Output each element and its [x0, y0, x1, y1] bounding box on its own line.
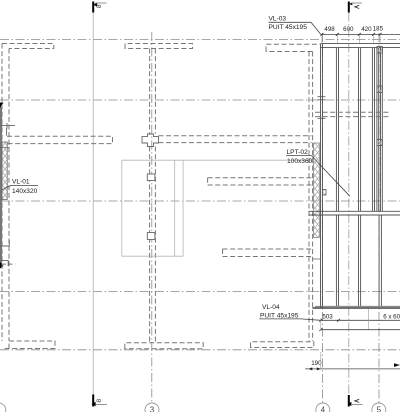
interior wall vertical lower pair [150, 147, 156, 343]
joist area footer band [313, 306, 400, 308]
joist J1 lower [336, 215, 338, 306]
post hatch square S3 [377, 140, 382, 146]
grid bubble 3 [145, 403, 159, 412]
wall stub upper right [208, 178, 312, 185]
wall top-left outer [2, 44, 54, 49]
joist J2 upper [359, 48, 361, 211]
wall right inner dashed 2 [308, 52, 310, 342]
grid bubble 5 [372, 403, 386, 412]
svg-text:VL-03: VL-03 [269, 16, 287, 23]
svg-text:503: 503 [322, 314, 333, 321]
wall left outer [1, 44, 3, 342]
right wall corner line [313, 258, 321, 260]
dashed wall across joists [315, 112, 391, 116]
grid line G-D horizontal y=291.5 [0, 291, 400, 293]
svg-text:4: 4 [321, 405, 326, 412]
interior wall horizontal left segment [7, 136, 113, 143]
svg-text:PUIT 45x195: PUIT 45x195 [269, 24, 308, 31]
joist J2 lower [359, 215, 361, 306]
grid line G-E horizontal y=349.8 [0, 349, 400, 351]
svg-text:8: 8 [96, 399, 103, 403]
post hatch square S1 [377, 47, 382, 54]
label VL-01 [2, 179, 38, 195]
label LPT-02 [286, 149, 350, 196]
bottom tab b [125, 343, 203, 349]
svg-text:185: 185 [373, 26, 384, 33]
svg-text:420: 420 [361, 26, 372, 33]
dimension 190 [305, 352, 400, 370]
grid line G-A horizontal y=39.5 [0, 39, 400, 41]
pilaster bar2 top edge [266, 44, 320, 51]
post strip right upper [377, 48, 382, 211]
post hatch square S4 [322, 190, 326, 196]
opening outline light [122, 160, 313, 256]
interior wall horizontal right segment [159, 136, 312, 143]
post hatch square S2 [377, 86, 382, 93]
interior wall vertical upper pair [150, 49, 156, 134]
joist J1 upper [336, 48, 338, 211]
grid line 3 vertical [151, 32, 153, 403]
svg-text:VL-01: VL-01 [12, 179, 30, 186]
pilaster bar1 top edge [125, 44, 193, 49]
svg-text:8: 8 [96, 4, 103, 8]
joist middle band [309, 211, 400, 215]
label VL-04 [259, 304, 321, 320]
svg-text:6 x 600: 6 x 600 [383, 314, 400, 321]
joist boundary junction ticks [318, 97, 326, 119]
beam right-wall hatched [314, 143, 320, 238]
section line 4 (right) [348, 2, 363, 407]
wall post cap P1 [147, 174, 155, 181]
svg-text:498: 498 [324, 26, 335, 33]
bottom tab a [2, 341, 55, 349]
wall post cap P2 [147, 233, 155, 240]
dimension bottom row 1 [319, 314, 400, 322]
beam VL-01 hatched [2, 142, 7, 200]
dimension bottom row 2 [319, 318, 400, 331]
wall left inner [8, 49, 10, 342]
dimension top row [321, 26, 400, 43]
grid line G-B horizontal y=100 [0, 99, 400, 101]
section line 8 [92, 2, 108, 407]
svg-text:600: 600 [343, 26, 354, 33]
svg-text:VL-04: VL-04 [262, 304, 280, 311]
wall right inner dashed [312, 52, 314, 342]
section line left edge [0, 103, 4, 269]
svg-text:100x360: 100x360 [287, 158, 313, 165]
grid bubble 2 partial [0, 403, 6, 412]
left wall junction marks [0, 123, 15, 266]
grid bubble 4 [316, 403, 330, 412]
svg-text:5: 5 [377, 405, 382, 412]
joist J3 upper [372, 48, 374, 211]
svg-text:140x320: 140x320 [12, 188, 38, 195]
svg-text:3: 3 [150, 405, 155, 412]
svg-text:190: 190 [311, 360, 322, 367]
joist area top band [321, 44, 400, 48]
grid line 5 vertical [378, 33, 380, 403]
grid line 4 vertical [322, 33, 324, 403]
joist J3 lower [379, 215, 381, 306]
joist area boundary pair [321, 44, 323, 308]
left wall stub dashed [2, 263, 15, 265]
extension line x=368.6 [368, 309, 370, 331]
wall stub lower right [223, 249, 312, 257]
bottom tab c [251, 342, 314, 348]
label VL-03 [269, 16, 321, 35]
svg-text:LPT-02: LPT-02 [287, 149, 309, 156]
grid line G-C horizontal y=201 [0, 200, 400, 202]
interior wall cross junction [142, 134, 159, 147]
